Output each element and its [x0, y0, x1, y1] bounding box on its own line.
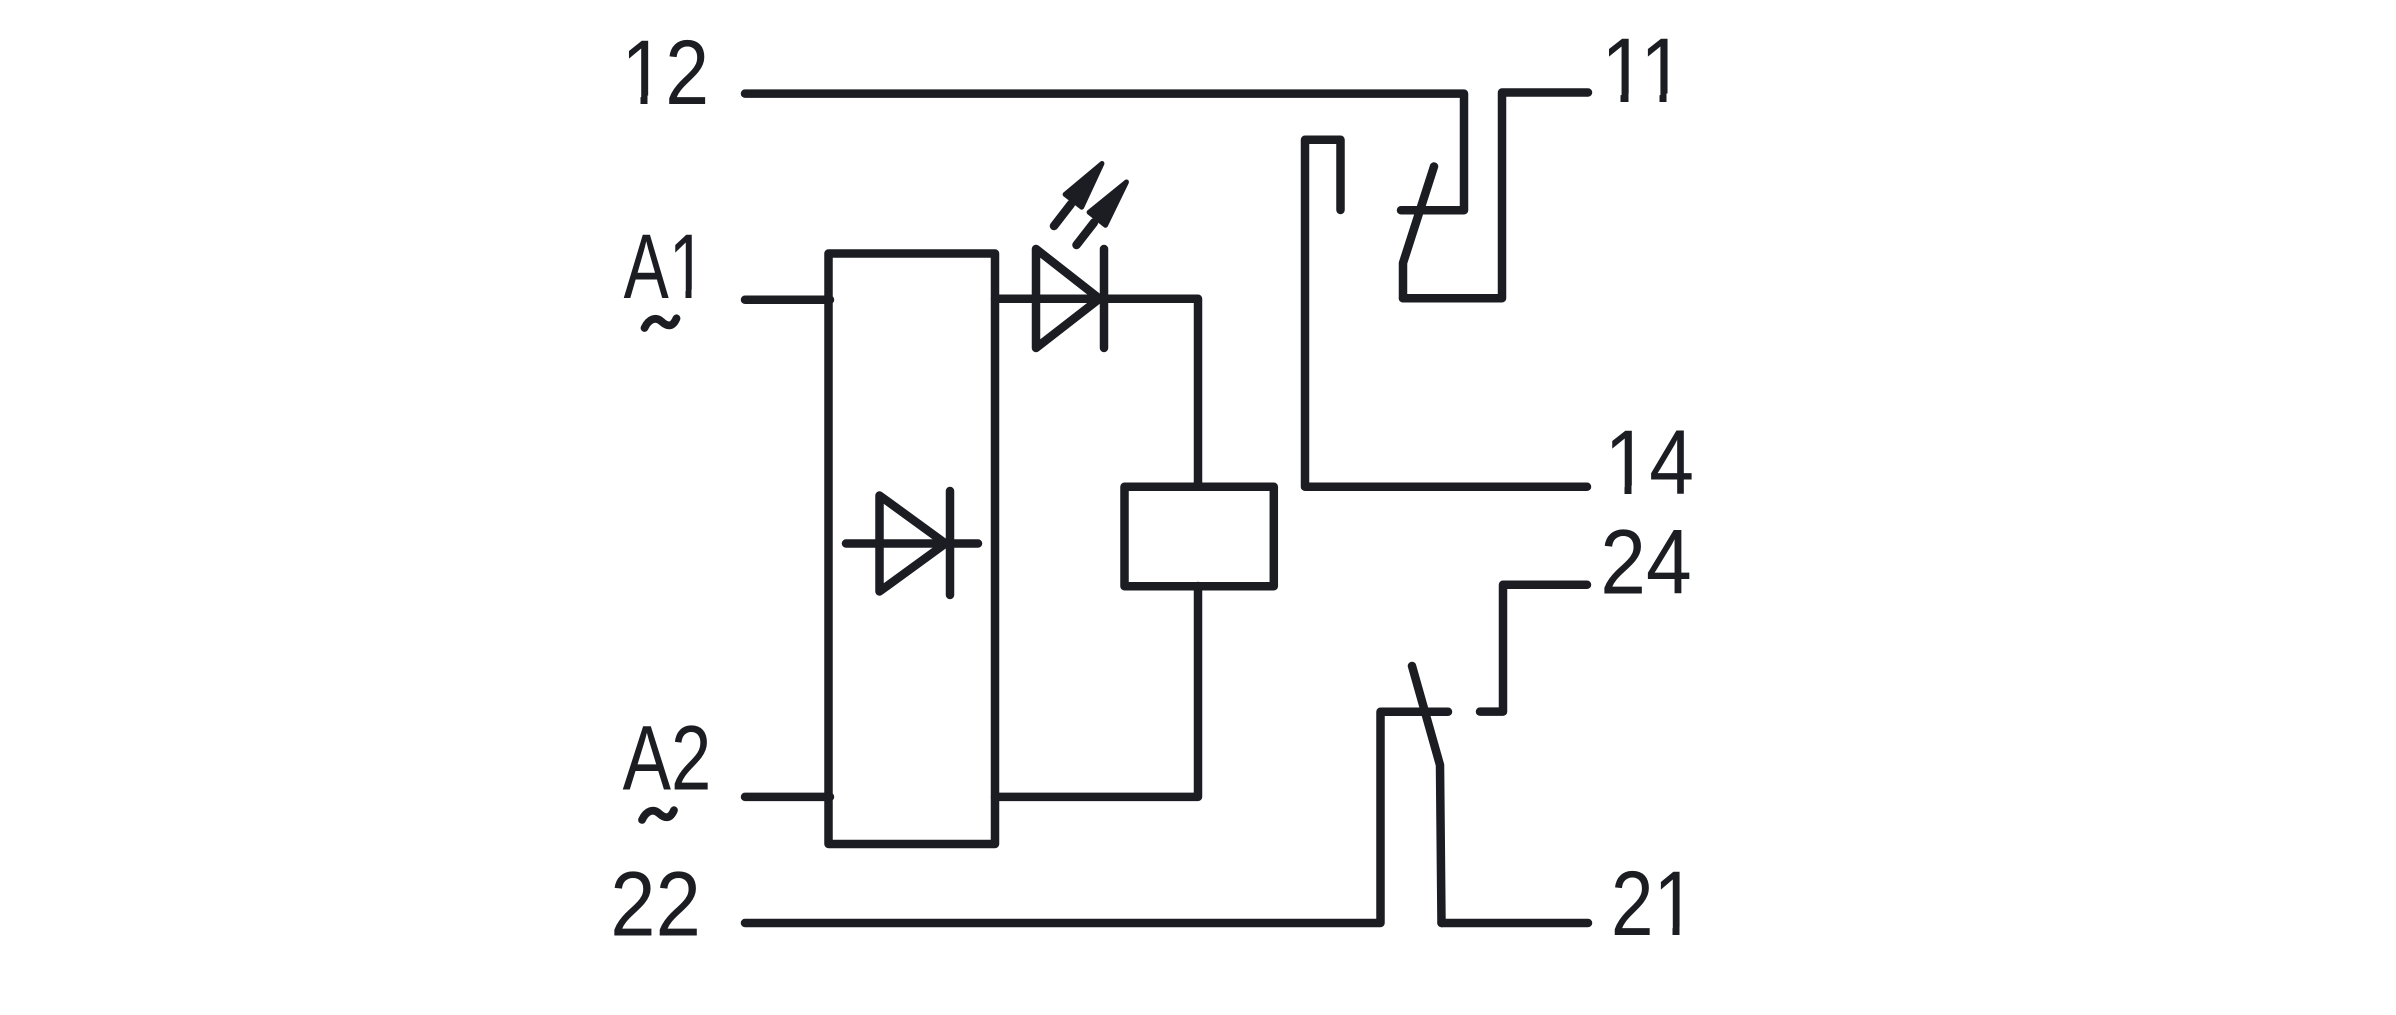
- svg-text:22: 22: [610, 853, 701, 956]
- svg-text:A2: A2: [623, 706, 712, 809]
- svg-text:24: 24: [1600, 511, 1691, 613]
- glyph foot masks (white): [625, 94, 1695, 937]
- wire 21 common of changeover contact K1/2: [1442, 919, 1589, 928]
- svg-text:14: 14: [1605, 412, 1694, 514]
- wire relay coil bottom to A2 line: [995, 586, 1198, 797]
- wire A1 to rectifier: [745, 296, 830, 305]
- svg-text:A1: A1: [624, 216, 707, 319]
- wire A2 to rectifier: [745, 793, 830, 802]
- wire 24 with NO contact hook of K1/2: [1480, 585, 1587, 712]
- LED emission arrow 2: [1077, 182, 1127, 245]
- rectifier diode V1 cathode bar: [946, 491, 955, 595]
- AC symbol tilde at A1: [645, 318, 677, 328]
- svg-text:21: 21: [1611, 851, 1696, 954]
- terminal label 14: [1605, 412, 1694, 514]
- svg-text:11: 11: [1601, 20, 1685, 122]
- contact blade K1/2: [1412, 666, 1442, 923]
- wire rectifier to LED and relay coil top: [995, 299, 1198, 487]
- terminal label 24: [1600, 511, 1691, 613]
- terminal label A1: [624, 216, 707, 319]
- svg-text:12: 12: [621, 21, 709, 124]
- LED emission arrow 1: [1054, 164, 1102, 227]
- terminal label 12: [621, 21, 709, 124]
- wire 22 with NC contact bar of K1/2: [745, 712, 1448, 923]
- wire 11 common of changeover contact K1/1: [1403, 93, 1588, 299]
- AC symbol tilde at A2: [642, 810, 674, 820]
- terminal label 21: [1611, 851, 1696, 954]
- terminal label 11: [1601, 20, 1685, 122]
- terminal label A2: [623, 706, 712, 809]
- LED V2 cathode bar: [1100, 249, 1109, 348]
- rectifier diode V1 triangle: [880, 496, 946, 592]
- relay coil K1: [1125, 487, 1274, 586]
- terminal label 22: [610, 853, 701, 956]
- wire 14 with NO contact hook of K1/1: [1305, 140, 1587, 487]
- contact blade K1/1: [1403, 167, 1434, 299]
- LED V2 triangle: [1036, 249, 1100, 348]
- rectifier diode V1 line: [846, 539, 978, 548]
- wire 12 to NC contact bar of changeover contact K1/1: [745, 94, 1464, 211]
- rectifier block U1: [829, 254, 996, 845]
